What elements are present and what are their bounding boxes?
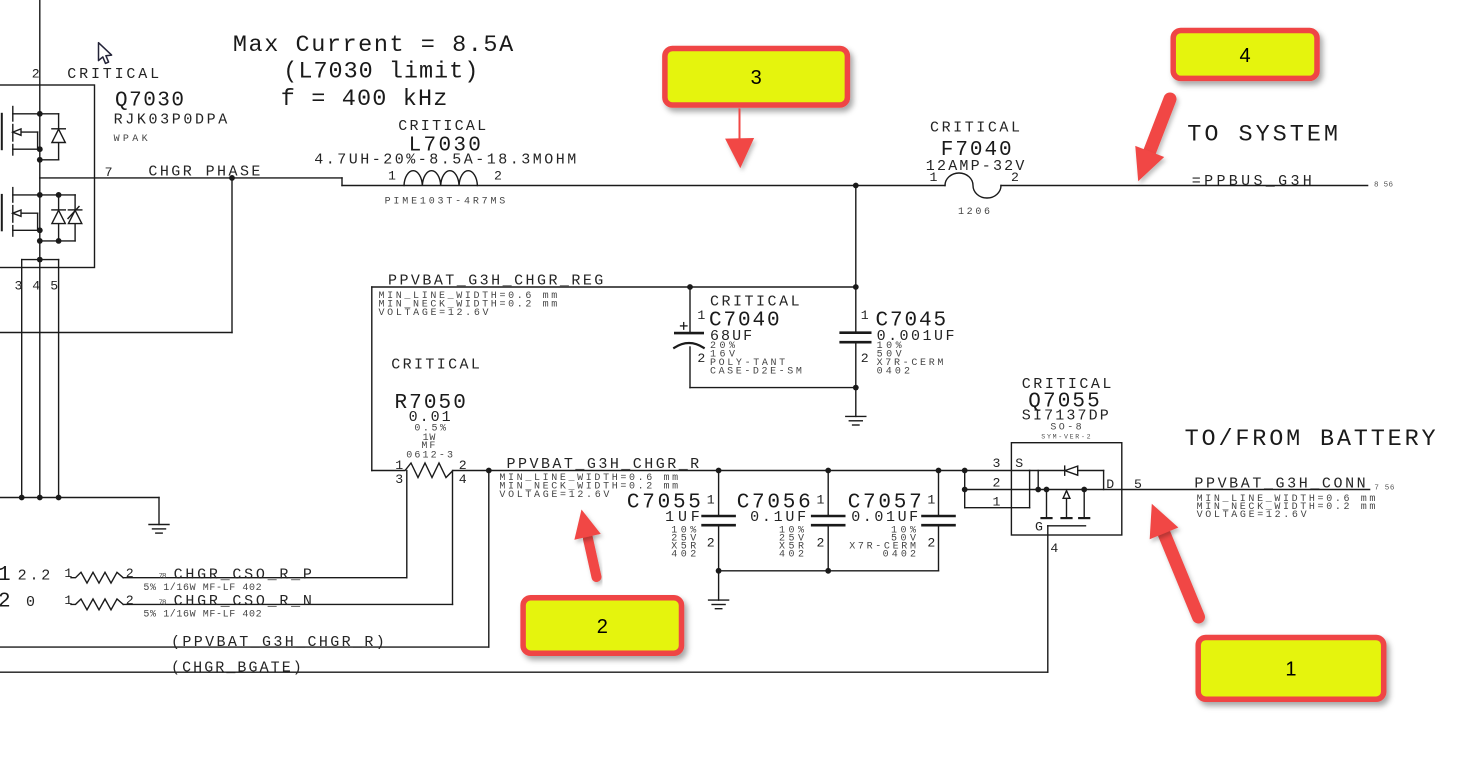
svg-text:2: 2 [494,169,502,184]
svg-text:1: 1 [388,169,396,184]
svg-text:402: 402 [779,549,804,560]
svg-text:5: 5 [1134,477,1142,492]
svg-text:SYM-VER-2: SYM-VER-2 [1041,433,1090,440]
svg-text:0.1UF: 0.1UF [750,509,806,526]
svg-text:G: G [1035,520,1043,535]
svg-text:2: 2 [126,566,134,581]
svg-text:1: 1 [1285,659,1296,681]
svg-text:2: 2 [861,351,869,366]
svg-text:2: 2 [126,593,134,608]
svg-text:1: 1 [817,493,825,508]
svg-text:Q7030: Q7030 [115,90,184,113]
svg-text:TO SYSTEM: TO SYSTEM [1187,121,1338,148]
svg-text:2: 2 [993,476,1001,491]
svg-text:2: 2 [32,66,40,81]
svg-text:7: 7 [105,165,113,180]
svg-text:2.2: 2.2 [18,568,51,585]
svg-text:1: 1 [707,493,715,508]
svg-text:4: 4 [1050,541,1058,556]
svg-text:1: 1 [64,566,72,581]
svg-text:78: 78 [159,573,167,581]
svg-text:PPVBAT_G3H_CHGR_R: PPVBAT_G3H_CHGR_R [507,456,700,473]
svg-text:CASE-D2E-SM: CASE-D2E-SM [710,367,802,378]
svg-text:PPVBAT_G3H_CONN: PPVBAT_G3H_CONN [1194,476,1365,493]
svg-text:78: 78 [159,600,167,608]
svg-text:0: 0 [26,594,35,611]
svg-text:2: 2 [1011,170,1019,185]
svg-text:D: D [1106,477,1114,492]
svg-text:1: 1 [64,593,72,608]
svg-text:1: 1 [930,170,938,185]
svg-text:TO/FROM BATTERY: TO/FROM BATTERY [1185,426,1436,453]
svg-text:f = 400 kHz: f = 400 kHz [281,86,448,113]
svg-text:3: 3 [751,67,762,89]
svg-text:2: 2 [697,351,705,366]
svg-text:2: 2 [0,591,11,614]
svg-text:1: 1 [927,493,935,508]
svg-text:5% 1/16W MF-LF 402: 5% 1/16W MF-LF 402 [143,582,261,594]
svg-text:3: 3 [395,472,403,487]
svg-text:1: 1 [861,308,869,323]
svg-text:4.7UH-20%-8.5A-18.3MOHM: 4.7UH-20%-8.5A-18.3MOHM [314,152,576,169]
svg-text:12AMP-32V: 12AMP-32V [926,158,1025,175]
svg-text:Max Current = 8.5A: Max Current = 8.5A [233,32,514,59]
svg-text:1: 1 [395,458,403,473]
svg-text:8 56: 8 56 [1374,181,1393,189]
svg-text:2: 2 [817,535,825,550]
svg-text:(L7030 limit): (L7030 limit) [283,59,478,86]
svg-text:2: 2 [597,616,608,638]
svg-text:2: 2 [459,458,467,473]
svg-text:S: S [1015,456,1023,471]
svg-text:5% 1/16W MF-LF 402: 5% 1/16W MF-LF 402 [143,609,261,621]
svg-text:2: 2 [707,535,715,550]
svg-text:4: 4 [1240,45,1251,67]
svg-text:3: 3 [15,278,23,293]
svg-text:1: 1 [993,495,1001,510]
svg-text:5: 5 [50,278,58,293]
svg-text:7 56: 7 56 [1374,484,1394,492]
svg-text:402: 402 [671,549,696,560]
svg-text:1: 1 [0,564,11,587]
svg-text:2: 2 [927,535,935,550]
svg-text:4: 4 [459,472,467,487]
svg-text:1: 1 [697,308,705,323]
svg-text:1UF: 1UF [665,509,700,526]
svg-text:4: 4 [32,278,40,293]
svg-text:3: 3 [993,456,1001,471]
